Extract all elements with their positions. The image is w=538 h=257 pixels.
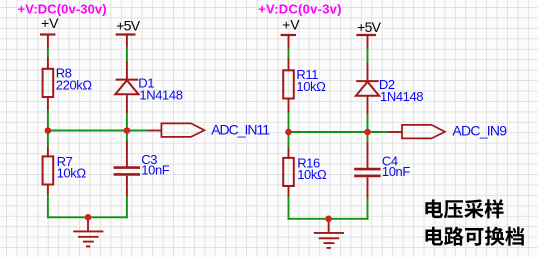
svg-text:+V: +V <box>282 17 300 33</box>
svg-text:ADC_IN9: ADC_IN9 <box>452 123 507 139</box>
svg-text:1N4148: 1N4148 <box>139 88 182 103</box>
svg-text:+V:DC(0v-3v): +V:DC(0v-3v) <box>258 2 342 17</box>
svg-text:+5V: +5V <box>357 19 382 35</box>
svg-text:10kΩ: 10kΩ <box>57 166 87 181</box>
svg-text:1N4148: 1N4148 <box>380 89 423 104</box>
svg-text:ADC_IN11: ADC_IN11 <box>211 121 270 137</box>
svg-text:+V:DC(0v-30v): +V:DC(0v-30v) <box>18 1 107 16</box>
svg-text:+5V: +5V <box>116 18 141 34</box>
svg-text:10nF: 10nF <box>141 163 169 178</box>
svg-text:10kΩ: 10kΩ <box>296 79 326 94</box>
svg-text:10kΩ: 10kΩ <box>297 167 327 182</box>
svg-text:+V: +V <box>41 15 59 31</box>
svg-text:220kΩ: 220kΩ <box>56 77 93 92</box>
svg-text:10nF: 10nF <box>382 164 410 179</box>
